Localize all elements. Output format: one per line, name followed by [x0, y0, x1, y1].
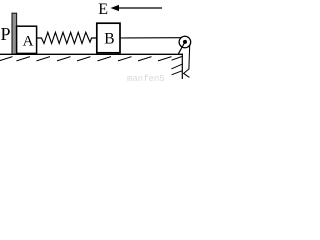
spring	[37, 32, 97, 43]
svg-text:A: A	[23, 34, 34, 50]
block A	[17, 26, 37, 53]
edge hatching	[171, 56, 182, 74]
block B	[97, 23, 120, 53]
svg-text:P: P	[1, 24, 11, 44]
pulley axle	[183, 40, 187, 44]
string B to pulley	[120, 37, 182, 39]
svg-text:manfen5: manfen5	[127, 74, 165, 84]
ground hatching	[0, 57, 172, 61]
pulley	[179, 36, 191, 48]
hanging string	[184, 45, 190, 78]
svg-text:E: E	[98, 1, 108, 18]
wall	[12, 13, 17, 54]
arrow E head	[111, 5, 120, 11]
table edge	[181, 54, 183, 79]
arrow E shaft	[118, 7, 162, 9]
pulley support rod	[178, 42, 185, 54]
svg-text:B: B	[104, 31, 114, 48]
ground line	[0, 53, 183, 55]
